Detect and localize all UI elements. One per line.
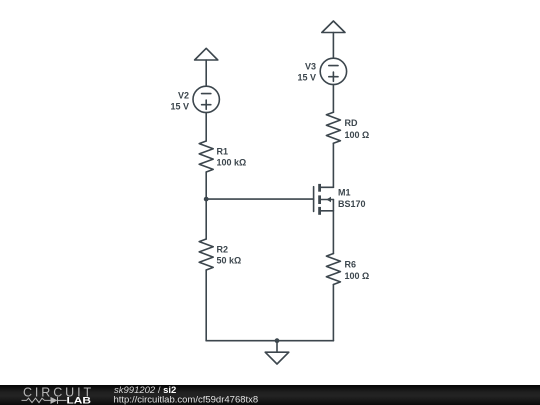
resistor R1 bbox=[199, 141, 213, 172]
svg-text:http://circuitlab.com/cf59dr47: http://circuitlab.com/cf59dr4768tx8 bbox=[114, 395, 259, 405]
wire R1 to R2 bbox=[205, 172, 207, 239]
transistor M1 channel bars bbox=[318, 184, 321, 215]
node A (gate divider) bbox=[204, 197, 209, 202]
power flag V3 bbox=[322, 21, 345, 33]
node ground junction bbox=[275, 338, 280, 343]
resistor R6 bbox=[326, 254, 340, 285]
voltage source V2 bbox=[193, 86, 219, 112]
wire V3 to RD bbox=[332, 85, 334, 113]
wire flag V2 to source bbox=[205, 60, 207, 86]
power flag V2 bbox=[195, 48, 218, 60]
wire flag V3 to source bbox=[332, 33, 334, 59]
wire bottom bbox=[206, 340, 333, 342]
ground bbox=[265, 352, 289, 364]
footer bar bbox=[0, 385, 540, 405]
voltage source V3 bbox=[320, 58, 346, 84]
wire V2 to R1 bbox=[205, 113, 207, 141]
wire RD to drain bbox=[332, 143, 334, 187]
wire R2 to bottom bbox=[205, 270, 207, 341]
resistor RD bbox=[326, 112, 340, 143]
logo resistor-diode squiggle bbox=[22, 397, 67, 404]
transistor M1 gate bar bbox=[313, 187, 315, 212]
transistor M1 body lead with arrow bbox=[320, 199, 333, 201]
resistor R2 bbox=[199, 239, 213, 270]
transistor M1 source lead bbox=[320, 210, 333, 212]
svg-text:LAB: LAB bbox=[67, 395, 92, 405]
transistor M1 drain lead bbox=[320, 186, 333, 188]
wire source to R6 bbox=[332, 200, 334, 254]
wire R6 to bottom bbox=[332, 285, 334, 341]
wire gate bbox=[206, 198, 313, 200]
wire ground stub bbox=[276, 341, 278, 353]
